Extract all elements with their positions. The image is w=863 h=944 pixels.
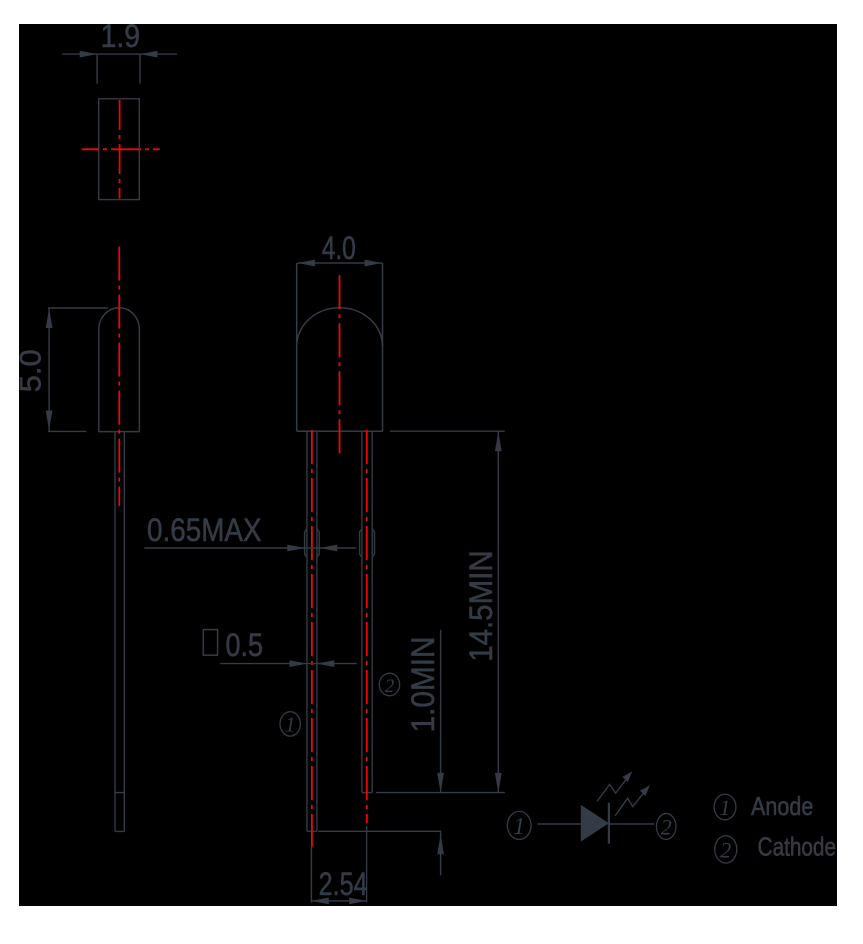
dimension 1.0MIN: extension line (anode tip level) [318, 830, 441, 832]
svg-text:2: 2 [720, 838, 731, 863]
LED symbol: anode wire [538, 823, 581, 825]
svg-text:2: 2 [661, 815, 672, 840]
dimension 0.5: arrow right [317, 660, 334, 667]
front view: body bottom edge [297, 430, 383, 432]
LED symbol: pin 2 ellipse [656, 814, 676, 840]
LED symbol: light ray 2 arrowhead [640, 785, 650, 796]
svg-text:1.0MIN: 1.0MIN [405, 637, 441, 733]
dimension 1.0MIN: arrow lower [437, 835, 444, 855]
front view: anode lead bottom edge [307, 830, 317, 832]
top view: extension line left [96, 54, 98, 84]
side view: lead bottom edge [115, 830, 124, 832]
svg-text:1: 1 [513, 814, 525, 840]
dimension 0.5: arrow left [290, 660, 307, 667]
front view: body right edge / extension [382, 263, 384, 431]
side view: dimension line 5.0 [48, 308, 50, 431]
svg-text:1: 1 [720, 795, 731, 820]
legend: pin 1 ellipse [714, 794, 736, 820]
front view: cathode lead wide tab left [360, 529, 362, 557]
svg-text:14.5MIN: 14.5MIN [463, 550, 499, 661]
LED symbol: pin 1 ellipse [507, 811, 531, 839]
dimension 14.5MIN: arrow bottom [495, 773, 502, 793]
LED symbol: light ray 1 arrowhead [622, 771, 632, 782]
svg-text:1.9: 1.9 [101, 18, 140, 54]
side view: epoxy body outline [99, 308, 140, 432]
pin callout 2 (cathode lead): ellipse [379, 673, 399, 696]
dimension 1.0MIN: dimension line upper [440, 630, 442, 793]
top view: package outline rectangle [99, 99, 140, 200]
dimension 0.65MAX: leader line [144, 547, 356, 549]
dimension 0.65MAX: arrow right [320, 545, 337, 552]
svg-text:2: 2 [385, 676, 395, 697]
front view: cathode lead bottom edge [362, 792, 372, 794]
front view: anode lead left edge [306, 431, 308, 831]
side view: dimension arrow top [46, 308, 53, 328]
svg-text:0.5: 0.5 [226, 627, 264, 663]
front view: cathode lead right edge [371, 431, 373, 792]
side view: lead tip step line [115, 792, 124, 794]
side view: lead left edge [114, 432, 116, 832]
top view: horizontal centerline (red) [82, 148, 160, 150]
LED symbol: diode triangle [581, 805, 609, 842]
dimension 2.54: arrow right [349, 898, 366, 905]
dimension 14.5MIN: extension line top [390, 430, 505, 432]
front view: anode lead right edge [316, 431, 318, 831]
svg-text:5.0: 5.0 [15, 349, 48, 392]
LED symbol: cathode wire [609, 823, 654, 825]
top view: dimension arrow left [80, 51, 97, 58]
front view: cathode lead wide tab right [372, 529, 374, 557]
svg-text:4.0: 4.0 [322, 230, 356, 266]
side view: vertical centerline (red) [118, 247, 120, 506]
side view: extension line bottom [48, 430, 86, 432]
side view: lead right edge [123, 432, 125, 832]
front view: dome arc [297, 308, 383, 346]
top view: dimension arrow right [140, 51, 157, 58]
svg-text:Cathode: Cathode [758, 831, 836, 861]
dimension 14.5MIN: extension line bottom [376, 792, 505, 794]
front view: anode lead centerline (red) [311, 430, 313, 847]
top view: dimension line 1.9 [62, 53, 177, 55]
side view: dimension arrow bottom [46, 411, 53, 431]
front view: dimension arrow left [298, 260, 315, 267]
front view: anode lead wide tab left [305, 529, 307, 557]
dimension 14.5MIN: arrow top [495, 432, 502, 452]
top view: extension line right [139, 54, 141, 84]
top view: vertical centerline (red) [119, 100, 121, 199]
dimension 0.5: leader line [220, 663, 357, 665]
LED symbol: light ray 2 zigzag [615, 793, 644, 816]
dimension 0.65MAX: arrow left [287, 545, 304, 552]
front view: cathode lead centerline (red) [366, 430, 368, 823]
side view: extension line top [48, 307, 108, 309]
svg-text:0.65MAX: 0.65MAX [147, 512, 262, 548]
front view: dimension arrow right [365, 260, 382, 267]
front view: vertical centerline (red) [339, 275, 341, 455]
svg-text:2.54: 2.54 [319, 866, 368, 902]
front view: dimension line 4.0 [298, 262, 383, 264]
svg-text:Anode: Anode [751, 791, 813, 821]
legend: pin 2 ellipse [715, 836, 737, 863]
front view: cathode lead left edge [361, 431, 363, 792]
dimension 2.54: extension line left [310, 847, 312, 903]
svg-text:1: 1 [285, 713, 296, 737]
dimension 1.0MIN: dimension line lower [440, 832, 442, 875]
front view: anode lead wide tab right [317, 529, 319, 557]
dimension 14.5MIN: dimension line [497, 432, 499, 793]
pin callout 1 (anode lead): ellipse [280, 712, 300, 736]
LED symbol: light ray 1 zigzag [597, 779, 626, 801]
dimension 1.0MIN: arrow upper [437, 773, 444, 793]
dimension 2.54: dimension line [311, 900, 366, 902]
LED symbol: cathode bar [608, 803, 610, 844]
dimension 0.5: square symbol [203, 630, 217, 656]
dimension 2.54: arrow left [311, 898, 328, 905]
dimension 2.54: extension line right [366, 826, 368, 902]
front view: body left edge / extension [296, 263, 298, 431]
